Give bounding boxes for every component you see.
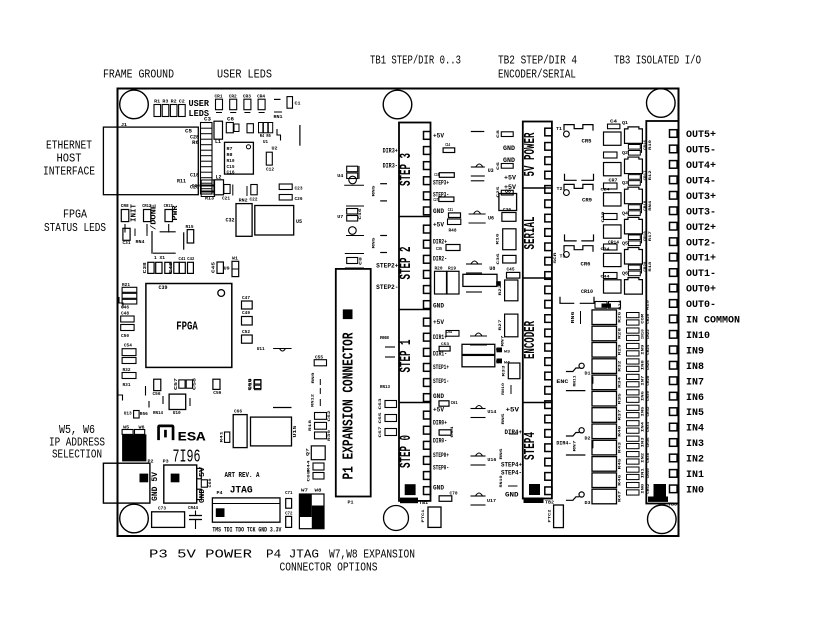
TB1 bottom black pad — [405, 484, 416, 495]
svg-text:CR42: CR42 — [647, 483, 651, 494]
svg-text:CR3: CR3 — [243, 94, 251, 100]
svg-text:RN5: RN5 — [373, 237, 377, 249]
capacitor C36 — [497, 253, 516, 265]
svg-text:OUT1-: OUT1- — [686, 268, 716, 280]
connector TB2 terminal block — [522, 122, 552, 499]
resistor R44 — [308, 460, 325, 472]
TB1 STEP3 pin net labels — [433, 133, 453, 216]
hook mark near R5 — [277, 129, 281, 141]
svg-text:IN6: IN6 — [641, 390, 645, 401]
svg-text:CR2: CR2 — [229, 94, 237, 100]
svg-text:C29: C29 — [602, 211, 606, 223]
svg-text:C36: C36 — [497, 253, 501, 265]
IC U16 symbol — [471, 453, 497, 465]
jumpers W7 W8 block — [299, 488, 324, 529]
svg-text:Q3: Q3 — [622, 180, 628, 186]
connector P2 5V power — [103, 459, 160, 504]
svg-text:R10: R10 — [227, 158, 235, 164]
svg-text:R46: R46 — [619, 474, 623, 486]
mounting hole top-middle — [383, 90, 412, 119]
svg-text:CONNECTOR OPTIONS: CONNECTOR OPTIONS — [280, 561, 378, 575]
svg-text:C44: C44 — [601, 276, 611, 280]
svg-text:C72: C72 — [285, 511, 293, 517]
IC U17 symbol — [471, 493, 497, 505]
mounting hole bottom-right — [648, 505, 677, 534]
svg-text:JTAG: JTAG — [230, 486, 253, 497]
svg-text:R29: R29 — [619, 343, 623, 355]
svg-text:T1: T1 — [556, 126, 562, 132]
svg-text:5V: 5V — [199, 466, 207, 477]
svg-text:STEP4: STEP4 — [522, 432, 539, 460]
capacitor C54 R32 R31 column — [122, 343, 136, 389]
optoisolator CR6 with T3 — [560, 246, 594, 268]
IC U5 — [255, 206, 302, 236]
IC U3 symbol — [471, 164, 494, 181]
svg-text:T2: T2 — [557, 186, 563, 192]
svg-text:U14: U14 — [487, 409, 496, 415]
resistors R20 R19 — [435, 266, 460, 295]
label FPGA STATUS LEDS — [44, 208, 106, 236]
svg-text:R40: R40 — [619, 425, 623, 437]
svg-text:CR6: CR6 — [581, 261, 591, 267]
jumper W4 black pad — [497, 359, 511, 366]
svg-text:W1: W1 — [232, 256, 238, 262]
svg-text:STEP 0: STEP 0 — [397, 435, 415, 468]
svg-text:W3: W3 — [504, 351, 511, 355]
svg-text:RN8: RN8 — [380, 335, 389, 341]
svg-text:C8: C8 — [360, 256, 364, 265]
svg-text:C65: C65 — [379, 412, 383, 424]
board outline — [118, 89, 679, 537]
capacitor C66 — [233, 409, 247, 448]
svg-text:TB3 ISOLATED I/O: TB3 ISOLATED I/O — [614, 54, 701, 68]
svg-text:C46: C46 — [121, 305, 129, 311]
svg-text:TB3: TB3 — [668, 502, 677, 508]
svg-text:R44: R44 — [308, 460, 312, 472]
svg-text:Q2: Q2 — [622, 150, 628, 156]
svg-text:GND: GND — [433, 485, 444, 492]
svg-text:ETHERNET: ETHERNET — [46, 139, 92, 153]
svg-text:R47: R47 — [619, 490, 623, 502]
svg-text:C41: C41 — [179, 256, 186, 262]
svg-text:DIR2+: DIR2+ — [433, 239, 447, 246]
svg-text:RN6: RN6 — [500, 448, 504, 460]
svg-text:GND: GND — [503, 145, 515, 152]
svg-text:C23: C23 — [295, 186, 303, 192]
TB1 STEP0 pin net labels — [433, 407, 449, 492]
svg-text:C26: C26 — [295, 196, 303, 202]
svg-text:CR22: CR22 — [647, 328, 651, 339]
svg-text:C53: C53 — [441, 343, 450, 347]
svg-text:STEP1+: STEP1+ — [433, 364, 449, 371]
svg-text:C27: C27 — [433, 197, 438, 203]
svg-text:CR20: CR20 — [647, 313, 651, 324]
svg-text:C18: C18 — [190, 173, 199, 179]
transistor column Q1-Q6 — [622, 120, 642, 294]
svg-text:R43: R43 — [619, 441, 623, 453]
svg-text:R1: R1 — [154, 99, 160, 105]
svg-text:P2: P2 — [148, 459, 154, 465]
svg-text:W8: W8 — [315, 488, 322, 494]
svg-text:C63: C63 — [379, 398, 383, 410]
resistor R41 — [221, 431, 230, 443]
optoisolator CR5 with T1 — [556, 125, 593, 145]
capacitor C70 — [439, 491, 458, 502]
svg-text:GND: GND — [433, 303, 444, 310]
svg-text:CR9: CR9 — [582, 198, 592, 204]
svg-text:IN9: IN9 — [641, 344, 645, 355]
svg-text:STEP4+: STEP4+ — [501, 462, 522, 469]
svg-text:ENCODER: ENCODER — [522, 321, 539, 359]
svg-text:STEP4-: STEP4- — [501, 470, 522, 477]
optoisolator CR10 — [560, 289, 594, 304]
TB1 bottom bar — [400, 498, 429, 506]
svg-text:ART REV. A: ART REV. A — [225, 472, 261, 480]
svg-text:C54: C54 — [446, 329, 452, 335]
svg-text:R39: R39 — [328, 429, 332, 441]
label P3 5V POWER P4 JTAG W7,W8 EXPANSION CONNECTOR OPTIONS — [149, 548, 415, 575]
resistors R1 R3 R2 C2 — [154, 99, 185, 117]
capacitor C19 part — [439, 173, 454, 178]
svg-text:IN9: IN9 — [686, 345, 704, 357]
svg-text:U13: U13 — [124, 411, 132, 417]
svg-text:DIR0+: DIR0+ — [433, 420, 447, 427]
svg-text:IN5: IN5 — [686, 407, 704, 419]
svg-text:C2: C2 — [179, 99, 185, 105]
resistor R39 — [315, 429, 332, 441]
svg-text:RN6: RN6 — [570, 311, 576, 323]
capacitor C73 — [152, 506, 185, 528]
capacitor C45 and IC U9 — [211, 262, 230, 274]
bracket pair above T2 — [565, 174, 594, 181]
svg-text:OUT3+: OUT3+ — [686, 191, 716, 203]
capacitor C35 part — [446, 245, 460, 251]
svg-text:C69: C69 — [209, 478, 213, 488]
svg-text:IN10: IN10 — [641, 328, 645, 339]
svg-text:P1: P1 — [348, 500, 354, 506]
svg-text:CR32: CR32 — [647, 406, 651, 417]
svg-text:CR7: CR7 — [609, 178, 618, 184]
svg-text:RN5: RN5 — [373, 185, 377, 197]
label USER LEDS silkscreen — [189, 99, 210, 119]
svg-text:SCR: SCR — [554, 252, 558, 264]
TB2 bottom black pad — [529, 484, 540, 495]
crystal X1 — [152, 231, 184, 261]
IC U6 symbol — [469, 211, 494, 223]
svg-text:OUT5+: OUT5+ — [686, 129, 716, 141]
svg-text:R56: R56 — [140, 411, 148, 417]
TB1 pins — [424, 132, 431, 495]
capacitor C71 — [285, 490, 293, 508]
capacitor C14 — [443, 142, 455, 153]
inductor L1 — [214, 121, 223, 145]
svg-text:5V POWER: 5V POWER — [522, 133, 539, 177]
svg-text:C45: C45 — [211, 262, 217, 273]
svg-text:STATUS LEDS: STATUS LEDS — [44, 221, 106, 235]
svg-text:+5V: +5V — [506, 407, 520, 414]
TB3 left tiny reference labels upper — [644, 139, 653, 272]
svg-text:U7: U7 — [337, 214, 343, 220]
IC U15 — [251, 417, 298, 446]
svg-text:CR30: CR30 — [647, 390, 651, 401]
IC U14 symbol — [471, 406, 497, 418]
resistor R15 — [186, 224, 194, 243]
svg-text:C20: C20 — [192, 183, 200, 189]
capacitor C61 — [439, 400, 458, 406]
svg-text:1 X1: 1 X1 — [154, 255, 165, 261]
svg-text:GND 5V: GND 5V — [151, 472, 160, 501]
svg-text:IN3: IN3 — [686, 438, 704, 450]
svg-text:Q6: Q6 — [622, 271, 628, 277]
svg-text:STEP 2: STEP 2 — [397, 247, 415, 280]
svg-text:CR14: CR14 — [608, 240, 619, 246]
svg-text:OUT4-: OUT4- — [686, 175, 716, 187]
resistor network RN12 label — [311, 393, 320, 407]
capacitor row C38 C46 C40 C41 C42 — [142, 256, 194, 273]
svg-text:IN2: IN2 — [686, 454, 704, 466]
label DIR4- RN7 — [556, 439, 592, 451]
svg-text:R19: R19 — [448, 266, 456, 272]
svg-text:TMS TDI TDO TCK GND 3.3V: TMS TDI TDO TCK GND 3.3V — [212, 527, 281, 534]
inductor L2 — [214, 175, 224, 195]
jumper W2 black — [496, 281, 501, 286]
svg-text:C67: C67 — [379, 426, 383, 438]
svg-text:CR8: CR8 — [121, 203, 129, 209]
capacitor C12 — [266, 152, 274, 172]
svg-text:U5: U5 — [296, 219, 302, 225]
connector P3 power — [163, 459, 213, 504]
svg-text:U2: U2 — [272, 146, 278, 152]
svg-text:IN0: IN0 — [686, 484, 704, 496]
resistor network RN1 — [274, 99, 283, 120]
svg-text:OUT3-: OUT3- — [686, 206, 716, 218]
svg-text:CR44: CR44 — [188, 505, 198, 511]
svg-text:C39: C39 — [159, 285, 168, 291]
svg-text:C12: C12 — [266, 167, 274, 173]
svg-text:RN13: RN13 — [380, 384, 390, 390]
svg-text:STEP1-: STEP1- — [433, 378, 449, 385]
resistor R16 — [497, 229, 517, 250]
svg-text:C64: C64 — [451, 426, 455, 438]
svg-text:DIR4+: DIR4+ — [505, 429, 523, 436]
capacitor C38 tb2 — [497, 129, 513, 138]
svg-text:U15: U15 — [292, 425, 298, 437]
svg-text:C22: C22 — [250, 197, 258, 203]
svg-text:R19: R19 — [649, 139, 653, 150]
capacitor C68 — [308, 470, 325, 482]
svg-text:C58: C58 — [192, 378, 198, 390]
svg-text:TB2 STEP/DIR 4: TB2 STEP/DIR 4 — [498, 54, 577, 68]
svg-text:C52: C52 — [242, 329, 250, 335]
svg-text:IN8: IN8 — [686, 361, 704, 373]
IC U7 group — [337, 206, 364, 236]
svg-text:R37: R37 — [619, 409, 623, 421]
resistor R33 — [503, 363, 520, 379]
mounting hole top-left — [120, 90, 149, 119]
svg-text:W7: W7 — [301, 488, 308, 494]
svg-text:P3 5V POWER: P3 5V POWER — [149, 548, 252, 562]
svg-text:OUT2+: OUT2+ — [686, 222, 716, 234]
capacitor C9 group — [345, 254, 364, 269]
resistor R27 — [499, 314, 518, 337]
svg-text:DIR2-: DIR2- — [433, 256, 447, 263]
svg-text:R17: R17 — [649, 230, 653, 241]
wire stub right of U2 — [299, 125, 301, 146]
svg-text:CR40: CR40 — [647, 468, 651, 479]
svg-text:C59: C59 — [213, 390, 221, 396]
svg-text:Q5: Q5 — [622, 241, 628, 247]
capacitor C6 — [226, 117, 239, 133]
svg-text:C35: C35 — [436, 246, 442, 252]
label ENC RN11 — [556, 375, 592, 387]
svg-text:DIR1+: DIR1+ — [433, 334, 447, 341]
svg-text:CR5: CR5 — [582, 139, 592, 145]
TB3 bottom black pad — [654, 484, 667, 497]
capacitor C25 tb2 — [497, 186, 513, 198]
svg-text:IN10: IN10 — [686, 330, 710, 342]
connector TB1 terminal block — [397, 123, 431, 501]
svg-text:PWR: PWR — [172, 205, 180, 221]
capacitor C47 — [242, 295, 253, 309]
svg-text:R34: R34 — [619, 376, 623, 388]
svg-text:CR36: CR36 — [647, 437, 651, 448]
right side I/O pin labels OUT5+..IN0 — [686, 129, 740, 496]
capacitor C30 tb2 — [502, 207, 516, 221]
svg-text:U17: U17 — [487, 498, 496, 504]
capacitor column C4 C13 C17 C29 C34 C44 with driver transistors — [601, 119, 622, 294]
capacitor C53 mid — [439, 343, 450, 351]
svg-text:RN9: RN9 — [312, 372, 316, 384]
resistor R18 mid — [309, 419, 327, 431]
TB2 STEP4 left net labels — [500, 407, 523, 499]
label TB2 STEP/DIR 4 ENCODER/SERIAL — [498, 54, 577, 82]
capacitor C20 stack — [192, 180, 215, 197]
jumpers W5 W6 header — [122, 410, 163, 462]
transistor D2 symbol — [566, 428, 591, 455]
svg-text:STEP 3: STEP 3 — [397, 153, 415, 186]
capacitor CR44 symbol — [188, 505, 202, 529]
fuse PTC1 — [422, 507, 441, 527]
svg-text:R4 R5: R4 R5 — [260, 133, 271, 139]
svg-text:C47: C47 — [242, 295, 250, 301]
svg-text:D2: D2 — [585, 436, 591, 442]
svg-text:R26: R26 — [619, 311, 623, 323]
IC U8 mid — [463, 261, 497, 292]
transistor Q7 — [307, 446, 326, 460]
svg-text:RN12: RN12 — [311, 393, 315, 407]
resistor network RN10 label — [502, 382, 511, 395]
capacitor C62 — [315, 410, 332, 422]
svg-text:R18: R18 — [309, 419, 313, 431]
svg-text:FPGA: FPGA — [176, 321, 198, 334]
TB2 pins — [545, 128, 552, 494]
LED CR13 PWR — [164, 203, 181, 222]
svg-text:RN14: RN14 — [153, 410, 163, 416]
svg-text:+5V: +5V — [433, 407, 444, 414]
svg-text:U4: U4 — [337, 173, 343, 179]
fuse PTC2 — [549, 505, 564, 528]
IC U4 group — [337, 166, 364, 185]
svg-text:TB1 STEP/DIR 0..3: TB1 STEP/DIR 0..3 — [370, 54, 461, 68]
Mesa logo — [157, 425, 206, 445]
resistor network RN8 — [380, 335, 395, 357]
svg-text:IN COMMON: IN COMMON — [686, 315, 740, 327]
svg-text:C68: C68 — [308, 470, 312, 482]
svg-text:C10: C10 — [250, 378, 254, 390]
svg-text:C6: C6 — [227, 117, 234, 123]
transistor Q8 — [499, 188, 517, 210]
svg-text:R16: R16 — [497, 233, 501, 245]
svg-text:R31: R31 — [123, 382, 131, 388]
jumper W3 black pad — [497, 348, 511, 355]
capacitor C23 — [279, 184, 303, 192]
svg-text:C31: C31 — [123, 240, 131, 246]
svg-text:Q1: Q1 — [622, 120, 628, 126]
svg-text:STEP2+: STEP2+ — [376, 263, 399, 270]
left capacitor column R21 C46 C48 C49 C50 — [121, 282, 137, 339]
svg-text:USER LEDS: USER LEDS — [217, 68, 272, 82]
svg-text:IN0: IN0 — [641, 483, 645, 494]
svg-text:CR28: CR28 — [647, 375, 651, 386]
capacitor C31 part — [449, 213, 461, 218]
svg-text:P1 EXPANSION CONNECTOR: P1 EXPANSION CONNECTOR — [342, 332, 358, 479]
capacitor C10 — [250, 378, 261, 390]
svg-text:C71: C71 — [285, 490, 293, 496]
svg-text:RN10: RN10 — [502, 382, 506, 395]
svg-text:CR38: CR38 — [647, 452, 651, 463]
svg-text:FRAME GROUND: FRAME GROUND — [103, 68, 174, 82]
mounting hole bottom-left — [120, 504, 149, 533]
svg-text:HOST: HOST — [57, 152, 82, 166]
svg-text:Q7: Q7 — [307, 447, 311, 456]
LED cathode tick marks — [125, 224, 169, 233]
svg-text:R22: R22 — [499, 284, 503, 296]
svg-text:U8: U8 — [489, 266, 495, 272]
svg-text:+5V: +5V — [504, 175, 516, 182]
svg-text:D3: D3 — [585, 500, 591, 506]
svg-text:GND: GND — [433, 393, 444, 400]
svg-text:USER: USER — [189, 99, 210, 109]
svg-text:U9: U9 — [224, 266, 230, 272]
IC U12 symbol — [470, 333, 487, 345]
svg-text:STEP3+: STEP3+ — [433, 180, 449, 187]
svg-text:OUT5-: OUT5- — [686, 145, 716, 157]
svg-text:RN11: RN11 — [573, 375, 577, 387]
mounting hole bottom-middle — [384, 506, 409, 531]
FPGA IC U8 with C39 — [146, 284, 232, 368]
IC U6 big rect W3 W4 — [462, 344, 502, 367]
svg-text:SERIAL: SERIAL — [522, 217, 539, 250]
capacitor C63 — [379, 398, 397, 410]
svg-text:U16: U16 — [487, 457, 496, 463]
svg-text:IN8: IN8 — [641, 359, 645, 370]
svg-text:DIR4-: DIR4- — [556, 439, 571, 446]
svg-text:GND: GND — [199, 489, 207, 503]
svg-text:C56: C56 — [153, 391, 161, 397]
capacitor C65 — [379, 412, 397, 424]
svg-text:COM: COM — [641, 313, 645, 324]
diode pairs CR19-CR43 column — [627, 313, 651, 496]
svg-text:C24: C24 — [601, 189, 611, 193]
capacitor C54 mid — [446, 331, 459, 337]
svg-text:C61: C61 — [451, 400, 458, 406]
capacitor C64 — [439, 426, 455, 438]
wire segment below U11 — [273, 407, 292, 409]
label ETHERNET HOST INTERFACE — [43, 139, 95, 179]
svg-text:C21: C21 — [222, 196, 230, 202]
svg-text:7I96: 7I96 — [173, 446, 201, 467]
svg-text:C16: C16 — [227, 170, 235, 176]
